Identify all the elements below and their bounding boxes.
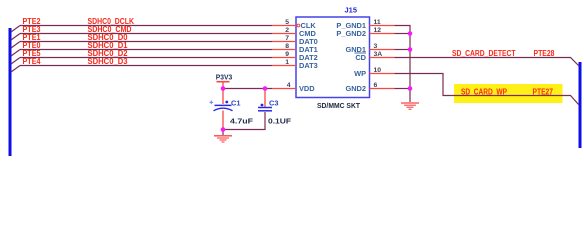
svg-text:3A: 3A: [374, 51, 383, 58]
svg-text:4: 4: [287, 82, 291, 89]
svg-text:WP: WP: [354, 69, 366, 78]
svg-text:12: 12: [374, 27, 382, 34]
svg-text:DAT3: DAT3: [299, 61, 318, 70]
svg-text:SDHC0_D3: SDHC0_D3: [88, 57, 129, 66]
svg-text:10: 10: [374, 67, 382, 74]
svg-text:SD_CARD_DETECT: SD_CARD_DETECT: [452, 49, 516, 58]
svg-text:1: 1: [285, 59, 289, 66]
svg-text:GND2: GND2: [345, 84, 366, 93]
svg-text:PTE27: PTE27: [533, 88, 554, 97]
svg-text:C1: C1: [231, 99, 240, 108]
svg-text:0.1UF: 0.1UF: [268, 116, 292, 125]
svg-text:6: 6: [374, 82, 378, 89]
svg-text:3: 3: [374, 43, 378, 50]
svg-text:8: 8: [285, 43, 289, 50]
svg-text:VDD: VDD: [299, 84, 315, 93]
svg-text:P_GND2: P_GND2: [336, 29, 366, 38]
svg-text:7: 7: [285, 35, 289, 42]
svg-text:PTE28: PTE28: [534, 49, 556, 58]
svg-text:J15: J15: [345, 6, 358, 15]
svg-text:SD/MMC SKT: SD/MMC SKT: [317, 103, 361, 110]
svg-text:4.7uF: 4.7uF: [230, 116, 254, 125]
svg-text:5: 5: [285, 19, 289, 26]
svg-text:SD_CARD_WP: SD_CARD_WP: [461, 88, 507, 97]
svg-text:2: 2: [285, 27, 289, 34]
svg-text:CD: CD: [355, 53, 366, 62]
svg-text:11: 11: [374, 19, 381, 26]
svg-text:C3: C3: [269, 99, 278, 108]
svg-text:P3V3: P3V3: [216, 74, 233, 81]
svg-text:PTE4: PTE4: [23, 57, 42, 66]
svg-text:9: 9: [285, 51, 289, 58]
